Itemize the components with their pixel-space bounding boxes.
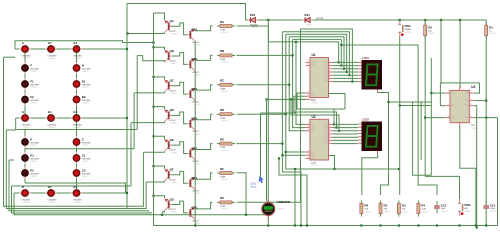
- svg-text:<TEXT>: <TEXT>: [23, 126, 31, 129]
- svg-text:D2: D2: [73, 185, 77, 189]
- svg-text:E: E: [30, 138, 32, 142]
- svg-text:<TEXT>: <TEXT>: [82, 70, 90, 73]
- svg-text:<TEXT>: <TEXT>: [82, 102, 90, 105]
- svg-text:5: 5: [308, 98, 309, 100]
- svg-text:<TEXT>: <TEXT>: [194, 222, 202, 225]
- svg-text:1: 1: [308, 61, 309, 63]
- svg-text:<TEXT>: <TEXT>: [23, 201, 31, 204]
- svg-text:<TEXT>: <TEXT>: [251, 26, 259, 29]
- svg-text:QG1: QG1: [192, 206, 198, 210]
- svg-text:2: 2: [448, 104, 449, 106]
- svg-text:QA1: QA1: [192, 28, 198, 32]
- svg-text:QG: QG: [170, 197, 175, 201]
- svg-text:<TEXT>: <TEXT>: [171, 62, 179, 65]
- svg-text:4: 4: [308, 95, 309, 97]
- svg-text:G2: G2: [73, 110, 77, 114]
- svg-text:2: 2: [329, 64, 330, 66]
- svg-text:R2: R2: [428, 25, 432, 29]
- svg-text:<TEXT>: <TEXT>: [30, 86, 38, 89]
- svg-text:<TEXT>: <TEXT>: [49, 57, 57, 60]
- svg-text:<TEXT>: <TEXT>: [171, 211, 179, 214]
- svg-text:<TEXT>: <TEXT>: [306, 24, 314, 27]
- svg-text:RE: RE: [220, 137, 224, 141]
- svg-text:<TEXT>: <TEXT>: [194, 163, 202, 166]
- svg-text:D01: D01: [305, 13, 311, 17]
- svg-text:D1: D1: [48, 185, 52, 189]
- svg-text:QD1: QD1: [192, 117, 198, 121]
- svg-text:<TEXT>: <TEXT>: [402, 210, 410, 213]
- svg-text:6: 6: [329, 139, 330, 141]
- svg-text:<TEXT>: <TEXT>: [30, 70, 38, 73]
- svg-text:C1: C1: [82, 154, 86, 158]
- svg-text:2: 2: [308, 126, 309, 128]
- svg-text:<TEXT>: <TEXT>: [221, 208, 229, 211]
- svg-text:<TEXT>: <TEXT>: [74, 126, 82, 129]
- svg-text:<TEXT>: <TEXT>: [221, 178, 229, 181]
- svg-text:4026: 4026: [311, 162, 317, 164]
- svg-text:5: 5: [308, 154, 309, 156]
- svg-text:R1: R1: [489, 25, 493, 29]
- svg-text:<TEXT>: <TEXT>: [82, 175, 90, 178]
- svg-text:<TEXT>: <TEXT>: [194, 73, 202, 76]
- svg-text:<TEXT>: <TEXT>: [311, 164, 319, 167]
- svg-text:LCD2: LCD2: [362, 117, 369, 121]
- svg-text:<TEXT>: <TEXT>: [311, 102, 319, 105]
- svg-text:QF: QF: [170, 168, 174, 172]
- svg-text:UMETER: UMETER: [277, 200, 291, 204]
- svg-text:1: 1: [448, 92, 449, 94]
- svg-text:SW1: SW1: [405, 24, 412, 28]
- svg-text:3: 3: [470, 104, 471, 106]
- svg-text:RB: RB: [220, 49, 224, 53]
- svg-text:<TEXT>: <TEXT>: [221, 149, 229, 152]
- svg-text:5: 5: [329, 74, 330, 76]
- svg-text:<TEXT>: <TEXT>: [464, 210, 472, 213]
- svg-text:<TEXT>: <TEXT>: [49, 201, 57, 204]
- svg-text:4: 4: [329, 132, 330, 134]
- svg-text:RG: RG: [220, 196, 225, 200]
- svg-text:F: F: [30, 64, 32, 68]
- svg-text:R3: R3: [402, 204, 406, 208]
- svg-text:U3: U3: [471, 85, 475, 89]
- svg-text:QC1: QC1: [192, 87, 198, 91]
- svg-text:QD: QD: [170, 108, 174, 112]
- svg-text:<TEXT>: <TEXT>: [74, 201, 82, 204]
- svg-text:1: 1: [329, 123, 330, 125]
- svg-text:2: 2: [470, 99, 471, 101]
- svg-text:3: 3: [308, 91, 309, 93]
- svg-text:D02: D02: [250, 13, 256, 17]
- svg-text:3: 3: [308, 129, 309, 131]
- svg-text:<TEXT>: <TEXT>: [384, 210, 392, 213]
- svg-text:<TEXT>: <TEXT>: [171, 122, 179, 125]
- svg-text:R4: R4: [421, 204, 425, 208]
- svg-text:<TEXT>: <TEXT>: [82, 86, 90, 89]
- svg-text:7: 7: [329, 142, 330, 144]
- svg-text:2: 2: [329, 126, 330, 128]
- svg-text:<TEXT>: <TEXT>: [471, 127, 479, 130]
- svg-text:QB1: QB1: [192, 57, 198, 61]
- svg-text:SW2: SW2: [464, 203, 471, 207]
- svg-text:<TEXT>: <TEXT>: [30, 102, 38, 105]
- svg-text:6: 6: [308, 157, 309, 159]
- svg-text:<TEXT>: <TEXT>: [405, 31, 413, 34]
- svg-text:F1: F1: [30, 80, 34, 84]
- svg-text:CC1: CC1: [490, 203, 496, 207]
- svg-text:6: 6: [329, 77, 330, 79]
- svg-text:<TEXT>: <TEXT>: [194, 133, 202, 136]
- svg-text:A2: A2: [73, 41, 77, 45]
- svg-text:3: 3: [448, 116, 449, 118]
- svg-text:<TEXT>: <TEXT>: [30, 160, 38, 163]
- svg-text:4026: 4026: [311, 100, 317, 102]
- svg-text:<TEXT>: <TEXT>: [49, 126, 57, 129]
- svg-text:<TEXT>: <TEXT>: [428, 32, 436, 35]
- svg-text:<TEXT>: <TEXT>: [23, 57, 31, 60]
- svg-text:1N4148: 1N4148: [250, 24, 258, 26]
- svg-text:RD: RD: [220, 108, 224, 112]
- svg-text:<TEXT>: <TEXT>: [194, 192, 202, 195]
- svg-text:3: 3: [329, 129, 330, 131]
- svg-text:<TEXT>: <TEXT>: [221, 61, 229, 64]
- svg-text:<TEXT>: <TEXT>: [82, 160, 90, 163]
- svg-text:B1: B1: [82, 80, 86, 84]
- svg-text:4: 4: [329, 70, 330, 72]
- svg-text:3: 3: [329, 67, 330, 69]
- svg-text:1N4148: 1N4148: [316, 18, 324, 20]
- svg-text:<TEXT>: <TEXT>: [490, 210, 498, 213]
- svg-text:E2: E2: [30, 169, 34, 173]
- svg-text:<TEXT>: <TEXT>: [221, 31, 229, 34]
- svg-text:U2: U2: [312, 115, 316, 119]
- svg-text:1: 1: [329, 61, 330, 63]
- svg-text:<TEXT>: <TEXT>: [364, 210, 372, 213]
- svg-text:5: 5: [329, 136, 330, 138]
- svg-text:<TEXT>: <TEXT>: [277, 208, 285, 211]
- svg-text:CLK1: CLK1: [250, 183, 257, 186]
- svg-text:<88.8>: <88.8>: [250, 186, 258, 189]
- svg-text:RESET: RESET: [405, 29, 413, 31]
- svg-text:LCD1: LCD1: [362, 56, 369, 60]
- svg-text:F2: F2: [30, 95, 34, 99]
- svg-text:<TEXT>: <TEXT>: [30, 175, 38, 178]
- svg-text:<TEXT>: <TEXT>: [194, 103, 202, 106]
- svg-text:QE: QE: [170, 138, 174, 142]
- svg-text:<TEXT>: <TEXT>: [421, 210, 429, 213]
- svg-text:<TEXT>: <TEXT>: [194, 44, 202, 47]
- svg-text:4: 4: [308, 150, 309, 152]
- svg-text:1: 1: [308, 123, 309, 125]
- svg-text:QE1: QE1: [192, 146, 198, 150]
- svg-text:G1: G1: [48, 110, 52, 114]
- svg-text:R6: R6: [364, 204, 368, 208]
- svg-text:<TEXT>: <TEXT>: [171, 181, 179, 184]
- svg-text:QB: QB: [170, 49, 174, 53]
- svg-text:<TEXT>: <TEXT>: [171, 33, 179, 36]
- svg-text:<TEXT>: <TEXT>: [171, 151, 179, 154]
- svg-text:<TEXT>: <TEXT>: [30, 144, 38, 147]
- svg-text:2: 2: [308, 64, 309, 66]
- svg-text:B2: B2: [82, 95, 86, 99]
- svg-text:4: 4: [470, 116, 471, 118]
- svg-text:E1: E1: [30, 154, 34, 158]
- svg-text:SET: SET: [464, 208, 469, 210]
- svg-text:7: 7: [329, 80, 330, 82]
- svg-text:<TEXT>: <TEXT>: [489, 32, 497, 35]
- svg-text:QF1: QF1: [192, 176, 198, 180]
- svg-text:<TEXT>: <TEXT>: [441, 210, 449, 213]
- svg-text:RF: RF: [220, 167, 224, 171]
- svg-text:<TEXT>: <TEXT>: [171, 92, 179, 95]
- svg-text:<TEXT>: <TEXT>: [221, 119, 229, 122]
- svg-text:A1: A1: [48, 41, 52, 45]
- svg-text:<TEXT>: <TEXT>: [82, 144, 90, 147]
- svg-text:C2: C2: [82, 169, 86, 173]
- svg-text:<TEXT>: <TEXT>: [74, 57, 82, 60]
- svg-text:1: 1: [470, 92, 471, 94]
- svg-text:R5: R5: [384, 204, 388, 208]
- svg-text:<TEXT>: <TEXT>: [221, 90, 229, 93]
- svg-text:U1: U1: [312, 53, 316, 57]
- svg-text:CC2: CC2: [441, 203, 447, 207]
